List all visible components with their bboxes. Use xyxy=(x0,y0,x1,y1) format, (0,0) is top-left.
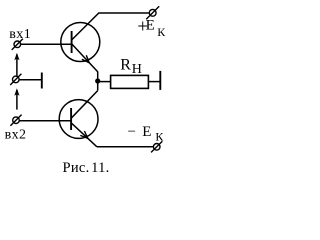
label +Ek xyxy=(137,17,166,40)
terminal вх2 xyxy=(10,115,21,126)
voltage arrow u_вх1 (between вх1 and middle terminal) xyxy=(14,53,19,76)
svg-text:E: E xyxy=(146,18,155,34)
label Rn xyxy=(120,57,142,77)
terminal вх1 xyxy=(12,39,23,50)
svg-text:К: К xyxy=(155,129,164,143)
wire вх1 to base of VT1 xyxy=(21,43,72,45)
label -Ek xyxy=(128,124,165,143)
svg-text:Рис. 11.: Рис. 11. xyxy=(63,160,110,176)
transistor VT2 emitter line with arrow xyxy=(71,123,97,147)
wire вх2 to base of VT2 xyxy=(19,120,71,122)
wire emitter VT2 to -Ek terminal xyxy=(97,146,153,148)
svg-text:вх2: вх2 xyxy=(5,127,27,142)
transistor VT2 base bar xyxy=(70,108,72,130)
wire resistor to right end bar xyxy=(148,81,159,83)
svg-text:Н: Н xyxy=(132,62,142,77)
middle input common terminal xyxy=(10,74,21,85)
terminal +Ek xyxy=(146,6,159,19)
transistor VT2 circle xyxy=(59,100,98,139)
voltage arrow u_вх2 (between middle terminal and вх2) xyxy=(14,88,19,109)
wire emitter VT1 / collector VT2 vertical segment xyxy=(97,72,99,91)
transistor VT2 collector line xyxy=(71,91,98,119)
transistor VT1 base bar xyxy=(71,31,73,53)
svg-text:вх1: вх1 xyxy=(9,27,31,42)
resistor Rn body xyxy=(111,75,149,88)
svg-text:К: К xyxy=(157,25,166,39)
right end bar xyxy=(159,71,161,90)
wire junction to resistor xyxy=(98,81,111,83)
svg-text:E: E xyxy=(142,124,151,140)
junction node dot xyxy=(95,78,100,83)
svg-text:−: − xyxy=(128,124,136,140)
transistor VT1 emitter line with arrow xyxy=(72,44,98,72)
left end bar xyxy=(41,73,43,89)
terminal -Ek xyxy=(151,141,162,152)
transistor VT1 circle xyxy=(61,23,100,62)
wire from middle terminal to end bar xyxy=(19,79,41,81)
svg-text:R: R xyxy=(120,57,131,74)
transistor VT1 collector line xyxy=(72,13,150,40)
